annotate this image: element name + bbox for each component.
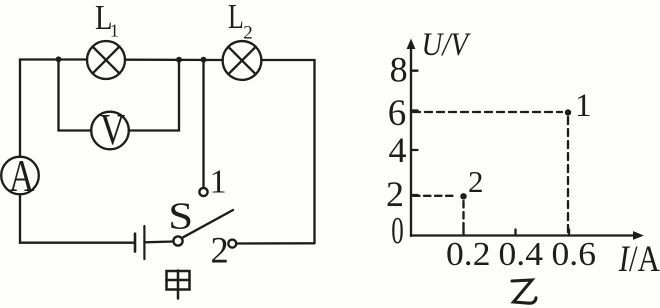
lamp L2 — [223, 41, 262, 80]
switch contact 1 — [199, 188, 207, 196]
svg-text:1: 1 — [110, 21, 119, 41]
svg-text:0.2: 0.2 — [446, 236, 491, 273]
svg-text:2: 2 — [468, 164, 484, 199]
wire L2 to top-right corner and down right side — [262, 60, 315, 243]
wire top-left: left corner to lamp L1 — [20, 60, 87, 158]
label 乙 (figure label, drawn strokes) — [512, 280, 536, 303]
data point 1 — [565, 109, 571, 115]
switch S blade — [182, 210, 233, 238]
svg-text:1: 1 — [210, 164, 227, 201]
battery BT1 — [135, 226, 144, 259]
wire battery to switch pole — [144, 240, 173, 243]
x-axis I/A — [411, 231, 644, 240]
dashed line U=2 to point 2 — [413, 195, 457, 197]
ammeter U2 A — [1, 157, 39, 195]
svg-text:A: A — [9, 151, 35, 202]
svg-text:2: 2 — [386, 174, 404, 214]
svg-text:4: 4 — [389, 130, 407, 170]
junction node on top wire at voltmeter left tap — [56, 56, 62, 62]
y tick 4 — [411, 149, 418, 151]
svg-text:2: 2 — [243, 23, 253, 44]
data point 2 — [460, 193, 466, 199]
svg-text:8: 8 — [390, 50, 408, 90]
dashed line U=6 to point 1 — [413, 111, 562, 113]
wire bottom-right: right corner to contact 2 — [237, 242, 315, 245]
wire voltmeter right leg — [129, 60, 179, 131]
svg-text:2: 2 — [211, 229, 229, 270]
lamp L1 — [87, 41, 125, 79]
label S — [168, 194, 193, 236]
x tick 0.4 — [514, 230, 516, 236]
svg-text:0: 0 — [391, 210, 404, 252]
svg-text:U/V: U/V — [422, 27, 472, 63]
switch contact 2 — [228, 240, 236, 248]
wire contact 1 up to top wire — [202, 60, 204, 188]
label V of voltmeter — [100, 104, 125, 154]
svg-text:0.6: 0.6 — [552, 236, 597, 273]
dashed line I=0.6 point 1 down to axis — [567, 117, 569, 233]
switch S pole — [173, 236, 182, 245]
wire left side below ammeter to battery — [20, 194, 134, 242]
svg-text:L: L — [228, 0, 244, 36]
y tick 6 — [411, 109, 418, 111]
y tick 2 — [411, 194, 418, 196]
x tick 0.6 — [568, 230, 570, 236]
label A of ammeter — [9, 151, 35, 202]
junction node on top wire at voltmeter right tap — [176, 57, 182, 63]
wire L1 to L2 — [125, 59, 223, 62]
y-axis U/V — [407, 39, 416, 237]
voltmeter U1 V — [91, 112, 129, 150]
junction node on top wire at switch contact-1 branch — [201, 57, 207, 63]
dashed line I=0.2 point 2 down to axis — [462, 201, 464, 233]
svg-text:0.4: 0.4 — [499, 236, 544, 273]
y tick 8 — [411, 70, 418, 72]
wire voltmeter left leg — [59, 59, 92, 130]
svg-text:V: V — [100, 104, 125, 154]
svg-text:S: S — [168, 194, 193, 236]
label 甲 (figure label, drawn strokes) — [167, 271, 190, 299]
svg-text:1: 1 — [575, 88, 592, 124]
x tick 0.2 — [462, 230, 464, 236]
svg-text:I/A: I/A — [618, 239, 660, 280]
svg-text:6: 6 — [388, 93, 407, 134]
